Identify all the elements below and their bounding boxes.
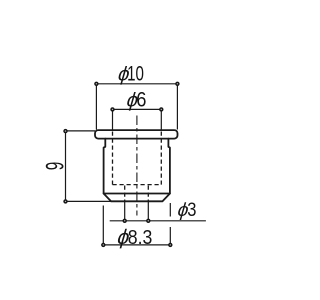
svg-text:9: 9 — [42, 162, 70, 171]
svg-text:3: 3 — [187, 199, 196, 221]
svg-text:6: 6 — [136, 88, 146, 112]
svg-text:10: 10 — [127, 62, 144, 85]
svg-text:8.3: 8.3 — [128, 227, 153, 249]
